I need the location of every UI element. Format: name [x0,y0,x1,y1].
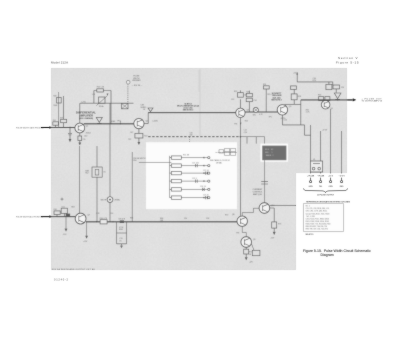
wire relay feed 1 [310,125,312,173]
network R305 C13 ladder [117,222,127,244]
capacitor C14 [246,98,252,101]
wire knob shaft dashed [127,84,129,103]
wire R41 stem [55,125,57,127]
resistor R61 [54,211,60,215]
resistor R74 [270,208,275,222]
ground Q2 emitter [138,138,140,142]
wire Q1 to Q2 bus [84,123,134,125]
wire relay feed 3 [330,109,332,173]
wire multivibrator bus [148,111,277,114]
notes box [303,203,343,231]
resistor R24 [265,89,267,112]
resistor R52 row2 [170,165,172,167]
capacitor C13 above Q4 [239,99,241,108]
diode CR5 [66,214,70,217]
wire terminal stems [311,178,342,181]
potentiometer R50A [99,97,105,103]
resistor network Q6 [319,97,324,101]
transistor Q2 [134,119,144,129]
resistor R26 [246,93,252,96]
wire width adj input [41,216,75,218]
transistor Q8 [237,216,247,226]
terminal E1 [310,181,312,183]
power -12V drop [65,217,67,229]
wire S2 spine [169,156,171,198]
resistor R28 [285,104,301,125]
wire dark box to Q10 [241,137,265,203]
transistor Q1 [75,123,85,133]
wire R40 vertical [58,92,60,128]
wire lower bus [86,221,237,223]
resistor R72 [245,247,247,249]
wire drop Q1 chain [79,146,81,213]
resistor R56 row6 [170,197,172,199]
ground Q1 emitter [78,143,81,146]
scanned schematic grey area lower [51,173,296,270]
relay K1 [310,161,322,172]
assembly outline dark box A5 [260,144,288,162]
capacitor C41 [68,128,72,140]
symbol emitter follower triangle [334,93,341,99]
wire Q8 to Q10 [242,208,259,212]
ground C41 [69,139,72,142]
resistor R76 [252,250,260,255]
wire Q8 to Q9 [242,226,246,236]
wire drop R48 chain [96,146,98,222]
terminal E4 [341,181,343,183]
ground Q9 [245,257,248,260]
resistor R51 row1 [170,157,172,159]
wire Q1 collector [79,103,81,123]
wire relay feed 4 [341,131,343,173]
resistor R40 [57,97,62,103]
resistor R53 row3 [170,172,172,174]
wire Q5 emitter mesh [282,115,310,135]
terminal E2 [320,181,322,183]
transistor Q6 [321,100,330,109]
resistor R42 [63,96,65,119]
resistor R48 box [92,167,102,177]
resistor R30 [326,84,332,89]
wire Q2 collector [144,113,148,124]
resistor R44 feedback loop [80,91,134,104]
capacitor C48 [122,103,129,108]
symbol triangle A2 [148,108,153,112]
symbol feedback triangle A1 [96,117,102,122]
transistor Q9 [241,237,252,248]
transistor Q5 [277,105,287,115]
resistor Q1 emitter [79,133,81,136]
wire timing bus dashed [148,136,240,138]
power +12V drop [86,222,88,236]
label current control amp [261,182,268,184]
resistor Q2 emitter [138,129,140,134]
resistor R41 [53,122,59,125]
wire Q4 emitter to timing bus [239,118,241,137]
wire R50 feed [139,161,172,163]
resistor R64 [100,220,107,224]
wire stub C17 [246,137,248,144]
transistor Q4 [236,108,245,117]
knob R50 [126,80,130,84]
wire drop right chain [131,152,133,222]
wire drop knob chain [109,103,111,221]
wire trigger input [41,127,75,129]
brace J1 [304,188,348,192]
wire pulse output [301,99,353,101]
transistor Q10 [259,203,270,214]
node plus mark [61,198,64,201]
wire rail drop x111 [110,103,112,124]
wire stub C18 [255,137,257,144]
wire arrow input [49,126,52,129]
switch S2 contact table boxes [219,150,224,153]
transistor Q7 [75,213,86,224]
wire S2 shaft dashed [189,137,191,142]
node junction C41 [69,127,70,128]
potentiometer R27 on bus [253,107,258,112]
resistor R54 row4 [170,180,172,182]
switch S2 white inset box [146,142,237,209]
resistor R55 row5 [170,188,172,190]
wire S2 common down [240,137,242,216]
capacitor C51 [61,208,67,213]
wire relay feed 2 [320,131,322,173]
inductor L30 [333,85,340,89]
label cluster clutter [71,87,344,264]
control R52 width knob [107,197,113,203]
scanned schematic grey area upper [51,68,347,173]
wire Q10 output right [270,204,296,206]
wire +15V rail [297,81,333,83]
terminal E3 [330,181,332,183]
diode CR32 on bus [120,220,124,223]
scan smudge [199,69,201,136]
